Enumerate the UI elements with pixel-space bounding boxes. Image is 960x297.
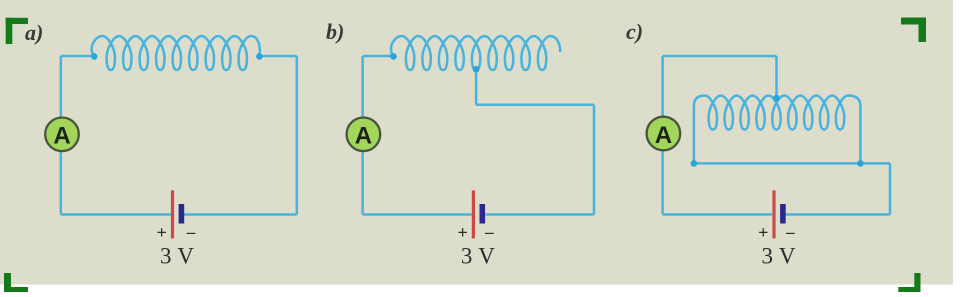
svg-text:–: – xyxy=(186,223,196,242)
svg-text:+: + xyxy=(457,223,467,243)
battery B3 red positive plate xyxy=(772,190,775,238)
svg-text:A: A xyxy=(53,123,70,150)
node b coil left terminal xyxy=(390,53,397,60)
svg-text:+: + xyxy=(156,223,166,243)
node c coil center tap xyxy=(773,95,780,102)
svg-text:A: A xyxy=(355,123,372,150)
svg-text:3 V: 3 V xyxy=(461,244,495,269)
svg-text:3 V: 3 V xyxy=(762,244,796,269)
svg-text:–: – xyxy=(484,223,494,242)
wire c bottom-left to battery xyxy=(663,213,772,216)
inductor L1 coil xyxy=(92,36,260,70)
wire b tap vertical to coil xyxy=(475,70,478,105)
node c mid-wire left junction xyxy=(691,160,698,167)
wire b left vertical through ammeter xyxy=(361,56,364,215)
battery B2 red positive plate xyxy=(472,190,475,238)
wire a bottom-left to battery xyxy=(61,213,171,216)
node a coil left terminal xyxy=(91,53,98,60)
ammeter A2 body xyxy=(347,118,381,152)
ammeter A3 body xyxy=(647,117,681,151)
wire a top-left from coil to left corner xyxy=(61,55,94,58)
battery B3 navy negative plate xyxy=(780,204,786,224)
svg-text:+: + xyxy=(758,223,768,243)
wire b top-left from coil to corner xyxy=(363,55,394,58)
wire c mid horizontal xyxy=(694,162,890,165)
svg-text:a): a) xyxy=(25,20,43,45)
node b coil center tap xyxy=(473,66,480,73)
wire a battery to bottom-right corner xyxy=(184,213,297,216)
wire b tap horizontal xyxy=(476,103,594,106)
ammeter A1 body xyxy=(45,118,79,152)
svg-text:–: – xyxy=(785,223,795,242)
svg-text:c): c) xyxy=(626,19,643,44)
wire a left vertical through ammeter xyxy=(60,56,63,215)
svg-text:b): b) xyxy=(326,19,344,44)
wire b right vertical up xyxy=(593,105,596,215)
inductor L3 coil with leads xyxy=(694,96,861,164)
inductor L2 coil with open right end xyxy=(391,36,560,70)
wire c right vertical xyxy=(889,163,892,214)
wire c bottom from battery to right corner xyxy=(783,213,891,216)
wire b bottom-left to battery xyxy=(363,213,472,216)
node a coil right terminal xyxy=(256,53,263,60)
wire b battery to bottom-right corner xyxy=(486,213,595,216)
battery B2 navy negative plate xyxy=(480,204,486,224)
battery B1 red positive plate xyxy=(171,190,174,238)
node c mid-wire right junction xyxy=(857,160,864,167)
battery B1 navy negative plate xyxy=(179,204,185,224)
wire a top-right from corner to coil xyxy=(259,55,296,58)
wire c left vertical through ammeter xyxy=(661,56,664,215)
svg-text:A: A xyxy=(655,122,672,149)
svg-text:3 V: 3 V xyxy=(160,244,194,269)
wire c top horizontal xyxy=(663,55,777,58)
wire c tap vertical down to coil top xyxy=(775,56,778,98)
wire a right vertical xyxy=(296,56,299,215)
